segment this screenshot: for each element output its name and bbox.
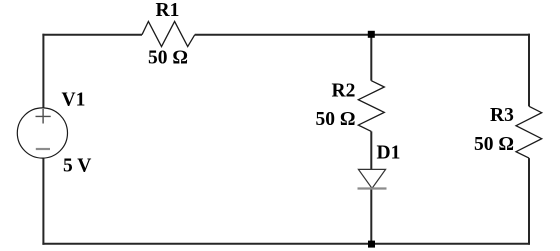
diode D1 cathode bar xyxy=(358,187,387,189)
resistor R1 xyxy=(142,21,195,46)
svg-text:R3: R3 xyxy=(490,105,514,126)
svg-text:R2: R2 xyxy=(332,81,356,102)
wire right lower xyxy=(528,158,530,245)
wire top-left segment xyxy=(42,34,142,36)
wire left lower (V1 bottom lead) xyxy=(42,158,44,245)
V1 plus sign xyxy=(36,109,51,124)
resistor R3 xyxy=(516,106,542,158)
junction node bottom (middle branch / bottom wire) xyxy=(368,241,375,248)
V1 minus sign xyxy=(36,148,50,150)
wire left upper (V1 top lead) xyxy=(42,34,44,109)
svg-text:R1: R1 xyxy=(156,0,180,21)
svg-text:50 Ω: 50 Ω xyxy=(148,48,188,69)
svg-text:D1: D1 xyxy=(377,142,401,163)
wire middle upper (node to R2) xyxy=(370,34,372,81)
wire middle between R2 and D1 xyxy=(370,131,372,169)
svg-text:50 Ω: 50 Ω xyxy=(316,109,356,130)
junction node top (middle branch / top wire) xyxy=(368,31,375,38)
wire right upper xyxy=(528,34,530,107)
resistor R2 xyxy=(358,81,384,132)
voltage source V1 circle xyxy=(17,108,67,158)
svg-text:50 Ω: 50 Ω xyxy=(474,134,514,155)
wire middle lower (D1 to bottom) xyxy=(370,189,372,244)
wire top-right segment xyxy=(195,34,530,36)
svg-text:V1: V1 xyxy=(62,90,86,111)
diode D1 triangle xyxy=(358,169,385,188)
wire bottom xyxy=(42,243,530,245)
svg-text:5 V: 5 V xyxy=(63,156,91,177)
